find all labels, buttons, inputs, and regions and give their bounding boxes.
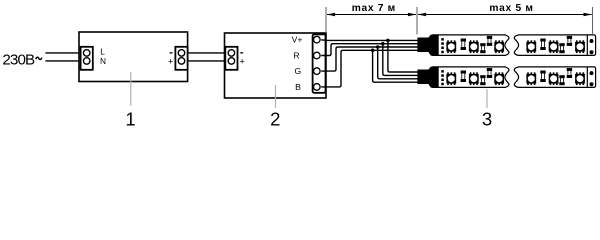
svg-text:+: + [240,56,245,66]
svg-text:B: B [295,82,301,92]
svg-text:230В: 230В [2,51,35,68]
svg-text:N: N [100,56,106,66]
svg-text:max 5 м: max 5 м [489,3,533,14]
svg-text:2: 2 [270,109,280,129]
svg-text:1: 1 [125,109,135,129]
svg-text:max 7 м: max 7 м [352,3,396,14]
svg-text:R: R [293,50,299,60]
svg-text:+: + [168,56,173,66]
svg-text:V+: V+ [292,35,303,45]
svg-text:3: 3 [482,109,492,129]
svg-text:G: G [295,66,302,76]
